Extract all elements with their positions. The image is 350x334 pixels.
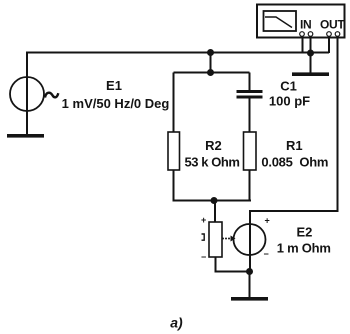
- svg-text:−: −: [201, 252, 206, 262]
- svg-text:53 k Ohm: 53 k Ohm: [185, 155, 240, 170]
- svg-text:1 m Ohm: 1 m Ohm: [277, 241, 331, 256]
- svg-text:R2: R2: [205, 138, 222, 153]
- svg-text:IN: IN: [300, 18, 311, 32]
- svg-text:1 mV/50 Hz/0 Deg: 1 mV/50 Hz/0 Deg: [62, 96, 170, 111]
- svg-text:100 pF: 100 pF: [269, 94, 310, 109]
- svg-text:a): a): [170, 315, 183, 331]
- svg-text:−: −: [264, 249, 269, 259]
- svg-text:OUT: OUT: [320, 18, 345, 32]
- svg-text:R1: R1: [286, 138, 303, 153]
- svg-text:+: +: [265, 216, 270, 226]
- svg-text:E2: E2: [296, 225, 312, 240]
- svg-text:C1: C1: [280, 79, 297, 94]
- svg-text:0.085 Ohm: 0.085 Ohm: [261, 155, 328, 170]
- svg-text:+: +: [201, 215, 206, 225]
- svg-text:E1: E1: [106, 78, 122, 93]
